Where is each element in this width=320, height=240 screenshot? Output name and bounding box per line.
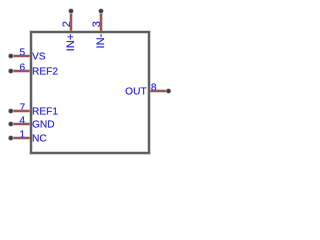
pin 8 wire bbox=[150, 89, 168, 93]
pin 4 dot bbox=[8, 121, 14, 127]
pin name OUT bbox=[125, 87, 147, 98]
pin name NC bbox=[32, 134, 47, 145]
pin 6 wire bbox=[11, 69, 30, 73]
pin 4 wire bbox=[11, 122, 30, 126]
svg-text:REF2: REF2 bbox=[32, 67, 58, 78]
pin 1 dot bbox=[8, 135, 14, 141]
pin 1 number bbox=[20, 129, 26, 140]
pin 5 number bbox=[20, 47, 26, 58]
svg-text:VS: VS bbox=[32, 52, 46, 63]
pin 3 wire bbox=[99, 11, 103, 31]
pin 3 number bbox=[91, 21, 103, 27]
pin 8 number bbox=[151, 82, 157, 93]
pin name VS bbox=[32, 52, 46, 63]
IC body rectangle bbox=[31, 32, 149, 153]
svg-text:8: 8 bbox=[151, 82, 157, 93]
svg-text:4: 4 bbox=[20, 115, 26, 126]
pin 7 wire bbox=[11, 109, 30, 113]
pin 5 dot bbox=[8, 53, 14, 59]
svg-text:IN-: IN- bbox=[95, 33, 107, 48]
pin 6 number bbox=[20, 62, 26, 73]
pin 7 dot bbox=[8, 108, 14, 114]
pin 3 dot bbox=[98, 8, 104, 14]
svg-text:REF1: REF1 bbox=[32, 107, 58, 118]
svg-text:NC: NC bbox=[32, 134, 47, 145]
pin 2 dot bbox=[68, 8, 74, 14]
svg-text:5: 5 bbox=[20, 47, 26, 58]
pin 1 wire bbox=[11, 136, 30, 140]
pin 2 wire bbox=[69, 11, 73, 31]
svg-text:GND: GND bbox=[32, 120, 55, 131]
pin 2 number bbox=[61, 21, 73, 27]
svg-text:IN+: IN+ bbox=[65, 34, 77, 52]
pin name REF2 bbox=[32, 67, 58, 78]
svg-text:3: 3 bbox=[91, 21, 103, 27]
pin name REF1 bbox=[32, 107, 58, 118]
svg-text:2: 2 bbox=[61, 21, 73, 27]
svg-text:OUT: OUT bbox=[125, 87, 147, 98]
pin 5 wire bbox=[11, 54, 30, 58]
pin 4 number bbox=[20, 115, 26, 126]
pin 7 number bbox=[20, 102, 26, 113]
pin 6 dot bbox=[8, 68, 14, 74]
svg-text:7: 7 bbox=[20, 102, 26, 113]
svg-text:1: 1 bbox=[20, 129, 26, 140]
pin 8 dot bbox=[166, 88, 172, 94]
pin name IN+ bbox=[65, 34, 77, 52]
svg-text:6: 6 bbox=[20, 62, 26, 73]
pin name GND bbox=[32, 120, 55, 131]
pin name IN- bbox=[95, 33, 107, 48]
